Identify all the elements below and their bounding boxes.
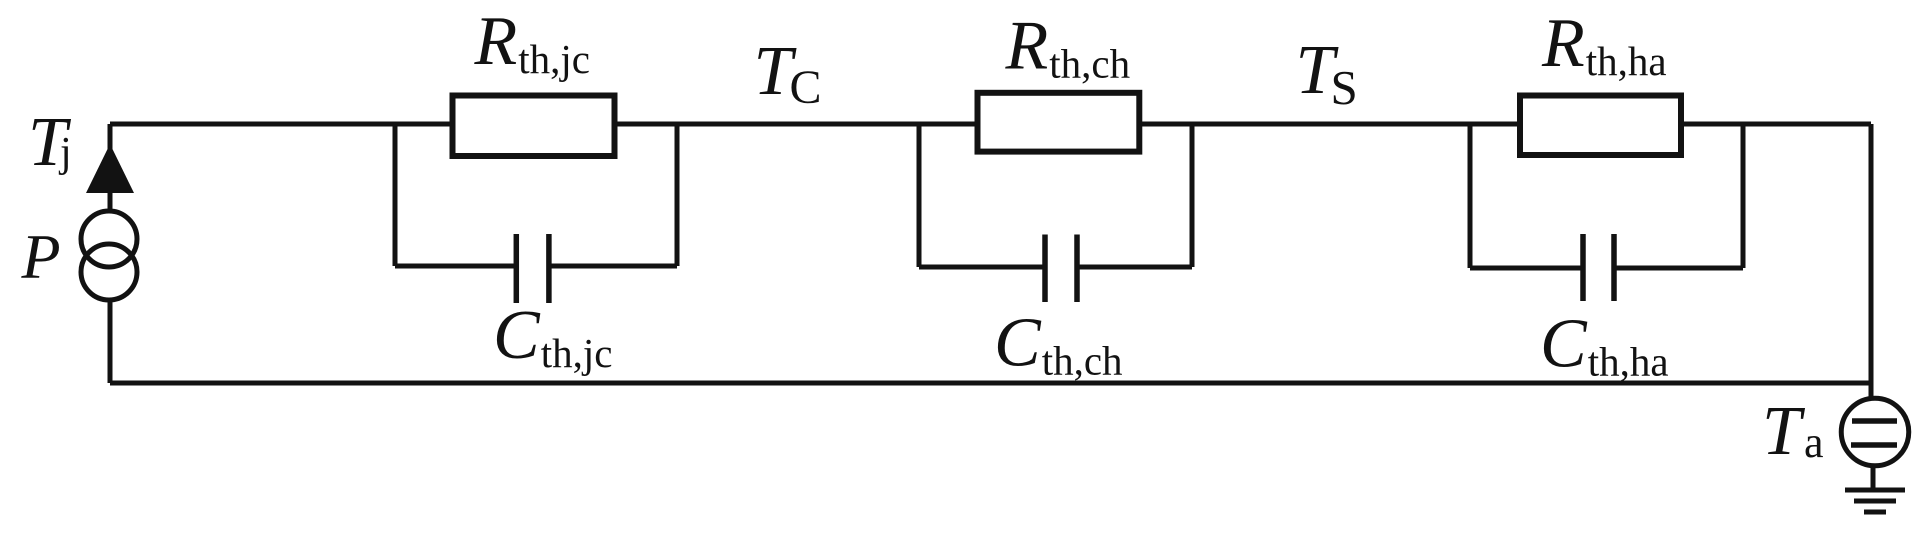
svg-text:P: P xyxy=(21,221,61,292)
wire jc bottom right segment xyxy=(551,264,677,269)
wire arrow base to source xyxy=(108,190,113,211)
wire jc bottom left segment xyxy=(395,264,515,269)
wire ch bottom left segment xyxy=(919,265,1043,270)
current source P circles xyxy=(81,211,137,300)
node branch ha left vertical xyxy=(1468,124,1473,268)
svg-text:Tj: Tj xyxy=(28,104,72,181)
wire top rail Tj to Ta xyxy=(110,122,1871,127)
resistor Rth,ch xyxy=(978,93,1140,152)
wire ch bottom right segment xyxy=(1079,265,1192,270)
current source P arrow xyxy=(86,144,134,193)
wire left drop from top rail to arrow xyxy=(108,124,113,150)
resistor Rth,ha xyxy=(1520,96,1681,156)
resistor Rth,jc xyxy=(453,96,615,157)
node branch jc left vertical xyxy=(393,124,398,266)
voltage source Ta xyxy=(1841,398,1909,490)
wire bottom rail xyxy=(110,381,1871,386)
node branch ch right vertical xyxy=(1190,124,1195,267)
node branch jc right vertical xyxy=(675,124,680,266)
capacitor Cth,ch xyxy=(1045,235,1077,303)
node branch ch left vertical xyxy=(917,124,922,267)
capacitor Cth,jc xyxy=(516,234,549,303)
ground xyxy=(1845,490,1905,512)
wire source bottom to bottom rail xyxy=(108,302,113,383)
wire right vertical rail xyxy=(1869,124,1874,398)
wire ha bottom right segment xyxy=(1616,266,1743,271)
capacitor Cth,ha xyxy=(1583,234,1614,301)
node branch ha right vertical xyxy=(1741,124,1746,268)
wire ha bottom left segment xyxy=(1470,266,1581,271)
